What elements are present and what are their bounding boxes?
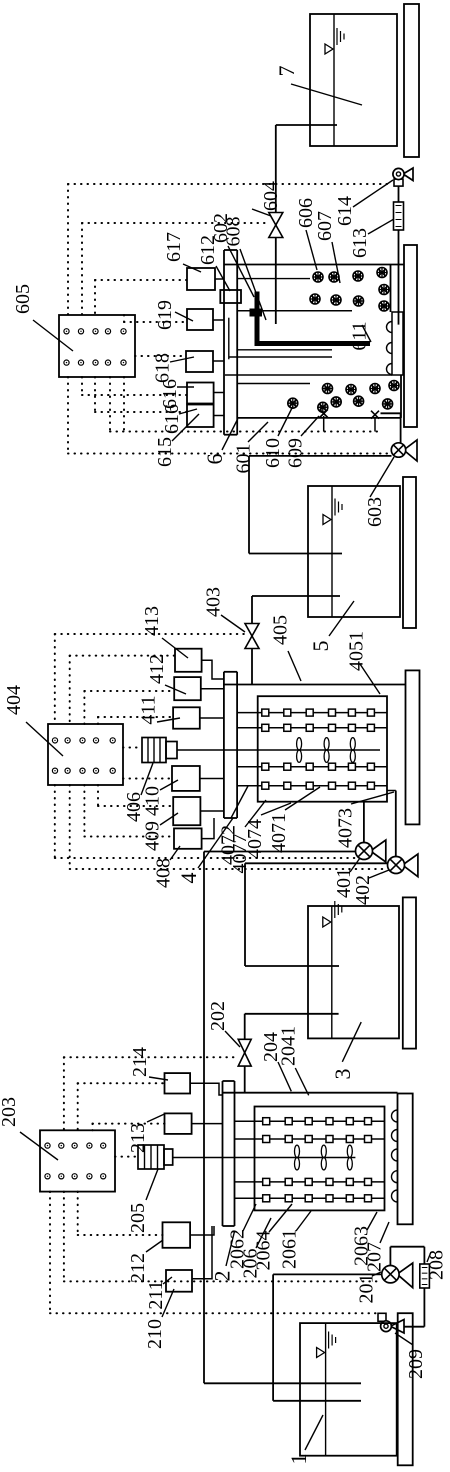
box 612: [220, 290, 241, 303]
svg-text:3: 3: [330, 1069, 355, 1080]
svg-text:411: 411: [138, 695, 160, 724]
svg-text:2061: 2061: [279, 1229, 301, 1269]
svg-text:4074: 4074: [244, 819, 266, 859]
mixer motor 406: [142, 738, 166, 763]
svg-text:413: 413: [141, 606, 163, 636]
flowmeter 613: [394, 202, 404, 230]
dosing box 408: [174, 828, 202, 848]
reactor 2 wall line: [223, 1092, 398, 1094]
dosing box 618: [186, 351, 213, 372]
control panel 605: [59, 315, 135, 377]
svg-text:210: 210: [144, 1319, 166, 1349]
reactor 2 header column: [222, 1081, 224, 1226]
pump 402: [388, 854, 418, 877]
svg-text:214: 214: [129, 1047, 151, 1077]
junction blob on 611: [250, 309, 263, 317]
pump 603 piping: [400, 413, 402, 443]
flowmeter 208: [420, 1264, 430, 1288]
svg-text:609: 609: [285, 438, 307, 468]
reactor 2 dosing pipes: [235, 1120, 385, 1122]
dosing box 411: [173, 707, 200, 728]
pipe valve604 to tank 7: [276, 124, 337, 126]
reactor 6 wall/top line: [224, 264, 404, 266]
dome diffusers reactor 6: [387, 322, 393, 333]
dosing box 214: [165, 1073, 191, 1093]
dosing box 212: [163, 1222, 191, 1248]
svg-text:613: 613: [349, 228, 371, 258]
reactor 6 bottom wall: [237, 417, 401, 419]
dosing box 409: [173, 797, 200, 825]
mixer motor 205: [138, 1145, 164, 1169]
svg-text:205: 205: [127, 1203, 149, 1233]
svg-text:412: 412: [146, 654, 168, 684]
control lines stage 2 (dotted): [54, 634, 56, 724]
propeller: [295, 1145, 300, 1157]
svg-text:610: 610: [262, 438, 284, 468]
tank 7 base plate: [404, 4, 419, 157]
reactor 4 wall line: [224, 684, 406, 686]
box connectors stage3: [215, 278, 224, 280]
svg-text:2064: 2064: [253, 1231, 275, 1271]
tank 3 base plate: [403, 897, 416, 1048]
svg-text:404: 404: [3, 685, 25, 715]
media balls lower chamber: [323, 384, 333, 394]
svg-text:212: 212: [127, 1253, 149, 1283]
reactor 6 header column: [223, 250, 225, 435]
svg-text:207: 207: [364, 1242, 386, 1272]
reactor 6 base plate: [404, 245, 417, 427]
tank 5: [308, 486, 400, 617]
reactor 2 base plate: [398, 1094, 413, 1225]
svg-text:213: 213: [127, 1123, 149, 1153]
control lines stage 1 (dotted): [63, 1057, 65, 1130]
mixer shaft reactor 4: [177, 749, 380, 751]
tank 7: [310, 14, 397, 146]
reactor 6 baffle 1: [237, 310, 352, 312]
dosing box 410: [172, 766, 200, 791]
svg-text:1: 1: [286, 1454, 311, 1465]
reactor 4 vessel: [258, 696, 387, 802]
drain to pump 401: [363, 802, 365, 843]
tank 1: [300, 1323, 397, 1456]
reactor 6 drop pipes: [237, 278, 310, 280]
control panel 203: [40, 1130, 115, 1191]
reactor 6 floor right compartment: [390, 265, 392, 313]
svg-text:4051: 4051: [346, 631, 368, 671]
dosing box 619: [187, 309, 213, 330]
svg-text:2: 2: [210, 1271, 235, 1282]
pump 401: [356, 840, 386, 862]
svg-text:2041: 2041: [278, 1026, 300, 1066]
dosing box 213: [165, 1113, 192, 1134]
svg-text:405: 405: [270, 615, 292, 645]
valve 202: [238, 1039, 251, 1066]
svg-text:603: 603: [364, 497, 386, 527]
tank 5 base plate: [403, 477, 416, 628]
svg-text:409: 409: [142, 821, 164, 851]
propeller: [297, 738, 302, 750]
svg-text:604: 604: [260, 181, 282, 211]
svg-text:201: 201: [356, 1274, 378, 1304]
tank 3: [308, 906, 399, 1038]
svg-text:619: 619: [154, 300, 176, 330]
air nozzles 609: [320, 410, 328, 418]
pump 603: [391, 440, 417, 461]
box connectors stage2: [202, 660, 224, 679]
svg-text:615: 615: [154, 437, 176, 467]
reactor 6 plenum box: [392, 312, 403, 375]
reactor 4 base plate: [406, 670, 420, 824]
svg-text:605: 605: [12, 284, 34, 314]
svg-text:7: 7: [274, 66, 299, 77]
nozzle squares reactor 2: [263, 1118, 270, 1125]
pump 402 discharge to tank3: [245, 862, 388, 864]
dosing box 616: [187, 383, 214, 404]
svg-text:203: 203: [0, 1097, 20, 1127]
pump 401 discharge to tank1 line: [204, 851, 356, 853]
svg-text:208: 208: [426, 1250, 448, 1280]
svg-text:601: 601: [233, 444, 255, 474]
pipe from valve 403 into tank 5: [252, 595, 340, 597]
control lines stage 3 (dotted): [67, 184, 69, 315]
propeller: [324, 738, 329, 750]
svg-text:608: 608: [223, 217, 245, 247]
svg-text:4073: 4073: [335, 808, 357, 848]
svg-text:4: 4: [176, 873, 201, 884]
dosing box 617: [187, 268, 215, 290]
dome diffusers reactor 2: [392, 1110, 398, 1122]
valve 604: [269, 213, 283, 238]
dosing box 412: [174, 677, 201, 700]
propeller: [321, 1145, 326, 1157]
svg-text:6: 6: [202, 454, 227, 465]
svg-text:4071: 4071: [268, 813, 290, 853]
svg-text:209: 209: [405, 1349, 427, 1379]
svg-text:614: 614: [334, 196, 356, 226]
blower 614: [393, 168, 413, 186]
svg-text:211: 211: [145, 1280, 167, 1309]
reactor 4 dosing pipes: [237, 712, 387, 714]
nozzle squares reactor 4: [262, 709, 269, 716]
dosing box 211/210: [166, 1270, 192, 1292]
propeller: [347, 1145, 352, 1157]
pump 209: [378, 1313, 404, 1333]
blower air pipe: [398, 187, 400, 325]
svg-text:5: 5: [308, 641, 333, 652]
reactor 6 floor left compartment: [400, 375, 402, 418]
pump 201: [382, 1263, 413, 1288]
reactor 2 vessel: [255, 1107, 385, 1211]
svg-text:612: 612: [197, 235, 219, 265]
svg-text:617: 617: [163, 232, 185, 262]
dosing box 413: [175, 649, 202, 672]
valve 403: [245, 624, 259, 649]
box connectors stage1: [190, 1083, 222, 1095]
thick outlet pipe 611: [257, 292, 370, 344]
svg-text:202: 202: [207, 1001, 229, 1031]
propeller: [350, 738, 355, 750]
outlet pipe reactor4 bottom: [387, 790, 396, 792]
pipe from valve 202 into tank 3: [245, 1013, 339, 1015]
mixer shaft reactor 2: [173, 1157, 356, 1159]
media balls upper chamber: [313, 272, 323, 282]
svg-text:618: 618: [152, 353, 174, 383]
control panel 404: [48, 724, 123, 785]
reactor 4 header column: [223, 672, 225, 818]
tank 1 base plate: [398, 1313, 413, 1465]
svg-text:408: 408: [153, 858, 175, 888]
reactor 6 baffle 2: [225, 374, 392, 376]
svg-text:403: 403: [203, 587, 225, 617]
dosing box 615: [187, 405, 214, 428]
pump 201 piping: [389, 1247, 391, 1266]
svg-text:410: 410: [142, 786, 164, 816]
svg-text:402: 402: [352, 875, 374, 905]
svg-text:607: 607: [314, 211, 336, 241]
svg-text:616: 616: [161, 404, 183, 434]
